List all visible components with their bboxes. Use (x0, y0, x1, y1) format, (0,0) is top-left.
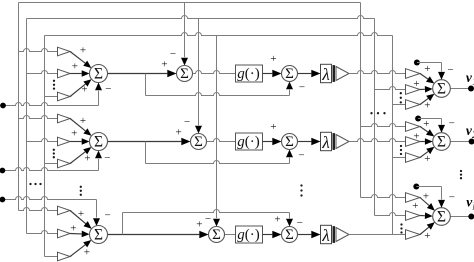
svg-text:Σ: Σ (194, 134, 203, 150)
svg-text:+: + (274, 213, 280, 225)
svg-text:−: − (298, 149, 304, 161)
svg-text:+: + (161, 59, 167, 71)
svg-text:Σ: Σ (212, 227, 221, 243)
svg-text:Σ: Σ (94, 227, 103, 244)
svg-text:+: + (424, 230, 430, 242)
svg-text:Σ: Σ (437, 81, 446, 98)
svg-text:+: + (80, 45, 86, 57)
svg-text:λ: λ (321, 133, 329, 152)
svg-text:Σ: Σ (180, 66, 189, 82)
svg-text:Σ: Σ (285, 227, 294, 243)
svg-text:+: + (84, 153, 90, 165)
svg-text:−: − (447, 64, 453, 76)
svg-text:−: − (105, 83, 111, 95)
svg-text:+: + (413, 131, 419, 143)
svg-text:+: + (424, 63, 430, 75)
svg-text:Σ: Σ (437, 134, 446, 151)
svg-text:g(·): g(·) (237, 66, 260, 82)
svg-text:+: + (80, 115, 86, 127)
svg-text:−: − (184, 116, 190, 128)
svg-text:Σ: Σ (437, 209, 446, 226)
svg-text:Σ: Σ (94, 66, 103, 83)
svg-text:g(·): g(·) (237, 227, 260, 243)
svg-text:λ: λ (321, 226, 329, 245)
svg-text:+: + (72, 61, 78, 73)
svg-text:Σ: Σ (285, 134, 294, 150)
svg-text:+: + (423, 191, 429, 203)
svg-text:+: + (71, 127, 77, 139)
svg-text:λ: λ (321, 65, 329, 84)
svg-text:Σ: Σ (285, 66, 294, 82)
svg-text:+: + (423, 118, 429, 130)
svg-text:+: + (196, 218, 202, 230)
svg-text:+: + (175, 127, 181, 139)
svg-text:+: + (413, 78, 419, 90)
svg-text:−: − (299, 81, 305, 93)
svg-text:−: − (449, 117, 455, 129)
svg-text:+: + (424, 153, 430, 165)
svg-text:+: + (81, 84, 87, 96)
svg-text:−: − (104, 152, 110, 164)
svg-text:−: − (170, 48, 176, 60)
svg-text:−: − (104, 210, 110, 222)
svg-text:−: − (297, 217, 303, 229)
svg-text:+: + (412, 200, 418, 212)
svg-text:+: + (270, 121, 276, 133)
svg-text:Σ: Σ (94, 134, 103, 151)
svg-text:+: + (270, 53, 276, 65)
svg-text:g(·): g(·) (237, 134, 260, 150)
svg-text:+: + (84, 246, 90, 258)
svg-text:+: + (70, 222, 76, 234)
svg-text:−: − (205, 213, 211, 225)
svg-text:−: − (449, 192, 455, 204)
svg-text:+: + (424, 100, 430, 112)
svg-text:+: + (78, 208, 84, 220)
